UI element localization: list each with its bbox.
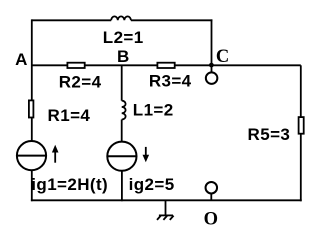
wire top right segment [131,19,213,21]
wire ig1 to bottom [31,170,33,201]
ground stub [165,200,167,215]
wire R2 to R3 through B [85,64,158,66]
svg-text:ig1=2H(t): ig1=2H(t) [31,175,108,194]
svg-text:B: B [117,47,129,66]
terminal circle C [206,72,218,84]
svg-text:R1=4: R1=4 [48,106,91,125]
svg-text:A: A [15,50,27,69]
wire R1 to ig1 [31,118,33,142]
wire ig2 to bottom [121,171,123,201]
resistor R1 [29,100,34,117]
wire B down to L1 [121,65,123,100]
inductor L1 [122,101,126,120]
node C junction dot [209,63,214,68]
svg-text:C: C [216,47,229,67]
svg-text:R2=4: R2=4 [59,72,102,91]
wire top left segment [32,19,111,21]
wire L1 to ig2 [121,120,123,142]
arrow ig1 direction [52,145,59,163]
wire middle horizontal A-R2 [32,64,68,66]
svg-text:ig2=5: ig2=5 [129,175,175,194]
svg-text:R3=4: R3=4 [149,71,192,90]
wire right vertical bottom [300,134,302,202]
current source ig1 [17,141,46,170]
svg-text:L1=2: L1=2 [133,101,174,120]
wire bottom horizontal [31,199,302,201]
stub node C to terminal [211,65,213,72]
wire corner down to node C [211,19,213,65]
current source ig2 [107,142,136,171]
ground tick 3 [170,216,174,220]
inductor L2 [111,16,131,20]
wire left vertical A up [31,19,33,100]
ground tick 1 [157,216,161,220]
stub terminal O to wire [210,193,212,200]
wire R3 to right edge through C [175,64,301,66]
wire right vertical top [300,65,302,117]
ground tick 2 [163,216,167,220]
svg-text:O: O [204,209,218,229]
resistor R3 [157,63,174,68]
svg-text:L2=1: L2=1 [103,28,144,47]
resistor R5 [299,117,304,134]
terminal circle O [206,182,218,194]
arrow ig2 direction [143,147,150,162]
svg-text:R5=3: R5=3 [248,125,291,144]
resistor R2 [67,63,84,68]
ground bar [159,214,173,216]
